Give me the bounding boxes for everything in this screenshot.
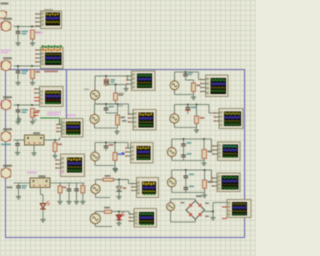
label C1 value <box>22 31 29 33</box>
capacitor C7 <box>76 183 78 189</box>
label below S1 magenta <box>36 32 43 34</box>
ground cell RA <box>193 95 195 98</box>
wire to B-left scope <box>128 104 130 114</box>
wire V9 top <box>171 170 173 177</box>
LED D1 <box>40 204 46 209</box>
label C11 <box>188 72 193 74</box>
op-amp U4 <box>1 131 11 141</box>
label X2 <box>39 175 46 177</box>
wire to C-left scope <box>127 143 129 149</box>
red wire to E-right pin2 <box>222 206 227 208</box>
wire X2 bottom <box>40 188 42 195</box>
resistor R19 <box>202 150 207 159</box>
resistor R3 <box>31 109 35 118</box>
capacitor C10 <box>105 143 107 146</box>
wire output stage 3 <box>14 104 41 106</box>
label C3 value <box>22 109 29 111</box>
ground below D3 <box>118 221 120 224</box>
graph display A-right <box>206 75 229 97</box>
wire to C-right scope <box>211 139 213 153</box>
label R14 blue <box>118 153 122 155</box>
ground below R1 <box>32 41 34 44</box>
wire R15 to D2 <box>114 179 129 181</box>
capacitor C2 <box>17 67 19 71</box>
wire X2 out <box>50 182 85 184</box>
label R3 value <box>36 110 41 112</box>
label R13 <box>121 117 126 119</box>
ground below C5 <box>18 194 20 197</box>
red pin stub stage 1 <box>1 23 2 28</box>
op-amp U3 <box>1 99 11 109</box>
wire V2 top <box>94 104 96 114</box>
resistor R12 <box>114 93 118 101</box>
label C16 <box>189 186 194 188</box>
top-left tiny label <box>1 3 9 5</box>
AC source V3 <box>91 152 100 161</box>
wire X1 bottom <box>33 145 35 151</box>
diode D2 <box>118 180 120 187</box>
ground below C1 <box>17 41 19 44</box>
resistor R13 <box>116 115 120 125</box>
label C5 <box>22 185 28 187</box>
ground below C7 <box>76 199 78 202</box>
wire to D-left scope <box>128 180 130 184</box>
graph display B-left <box>133 110 156 131</box>
ground cell RB <box>196 128 198 131</box>
graph display C-right <box>218 142 241 161</box>
ground top D <box>115 167 117 170</box>
graph display D-left <box>137 178 159 198</box>
capacitor C1 <box>17 27 19 31</box>
wire R16 to LED <box>112 211 129 213</box>
red text below S2 <box>44 71 58 73</box>
ground below X1 <box>33 151 35 154</box>
bridge rectifier D4-D7 <box>186 201 205 220</box>
ground arrow A <box>125 85 127 87</box>
wire to E-left scope <box>128 212 130 215</box>
label U3 <box>3 96 12 98</box>
label U5 <box>3 165 12 167</box>
label C9 <box>109 106 115 108</box>
ground below D2 <box>118 194 120 197</box>
ground cell C <box>114 166 116 169</box>
op-amp U1 <box>1 21 11 31</box>
label bridge <box>196 195 202 197</box>
label C2 value <box>22 70 29 72</box>
wire V6 top <box>174 72 176 80</box>
wire X1 to R9 <box>44 139 60 141</box>
wire V8 bottom <box>171 157 173 160</box>
red stub b <box>33 115 38 117</box>
capacitor C6 <box>68 183 70 189</box>
wire to B-right scope <box>208 105 210 114</box>
label C10 red <box>109 144 114 146</box>
label U1 <box>3 18 12 20</box>
green trace label above S2 <box>42 45 44 47</box>
label D corner c <box>205 216 209 218</box>
capacitor C9 <box>105 104 107 108</box>
label X1 <box>33 132 40 134</box>
red pin stub stage 3 <box>1 102 2 107</box>
capacitor C14 <box>183 149 185 155</box>
label R10 <box>63 187 67 189</box>
capacitor C13 <box>183 139 185 144</box>
ground below R9 <box>54 153 56 156</box>
wire mid A <box>105 85 107 87</box>
capacitor C15 <box>185 170 187 176</box>
red wire into S3 pin4 <box>34 100 40 102</box>
resistor R14 <box>113 153 117 161</box>
wire V4 top <box>95 180 97 184</box>
wire below D3 <box>118 220 120 222</box>
resistor R18 <box>195 116 199 124</box>
ground below R3 <box>32 119 34 122</box>
AC source V2 <box>90 114 99 123</box>
label R12 <box>119 94 124 96</box>
ground below C2 <box>17 80 19 83</box>
label R20 <box>208 181 213 183</box>
label D corner a <box>181 202 185 204</box>
capacitor C16 <box>185 181 187 187</box>
ground below C3 <box>17 119 19 122</box>
wire bridge out <box>205 211 213 213</box>
wire U4 output <box>14 139 25 141</box>
node stage 3 A <box>17 104 19 106</box>
label R18 <box>200 117 205 119</box>
node stage 1 B <box>31 26 33 28</box>
resistor R17 <box>192 83 196 92</box>
wire V10 top <box>170 199 172 202</box>
schematic grid background <box>0 0 256 256</box>
graph display S2 <box>41 48 64 69</box>
sheet border <box>6 70 245 238</box>
ground below R2 <box>32 80 34 83</box>
magenta text row b <box>59 171 64 173</box>
graph display B-right <box>219 109 243 129</box>
resistor R20 <box>203 180 207 188</box>
label R17 <box>197 85 201 87</box>
label R9 <box>58 144 63 146</box>
ground bridge <box>212 215 214 218</box>
component box X1 <box>25 135 45 145</box>
component box X2 <box>30 178 50 188</box>
wire mid B <box>106 112 118 114</box>
capacitor C3 <box>17 106 19 110</box>
resistor R10 <box>58 186 62 193</box>
wire to A-left scope <box>127 76 129 80</box>
graph display E-left <box>134 209 157 228</box>
label C14 <box>187 153 192 155</box>
wire V8 top <box>171 139 173 147</box>
wire V6 bottom <box>174 90 176 94</box>
wire V9 bottom <box>171 187 173 192</box>
wire V3 bottom <box>94 162 96 166</box>
wire V1 top <box>94 76 96 90</box>
node bridge out <box>212 211 214 213</box>
orange row S2 <box>42 49 44 51</box>
gray marks <box>32 119 37 121</box>
AC source V4 <box>91 184 100 193</box>
wire to S5 pins <box>59 138 61 141</box>
red wire into S3 pin3 <box>34 97 40 99</box>
ground cell B <box>116 129 118 132</box>
wire V7 top <box>173 105 175 114</box>
red wire to E-right pin4 <box>222 218 227 220</box>
label C8 <box>111 79 116 81</box>
resistor R15 horizontal <box>103 178 114 181</box>
capacitor C8 <box>105 76 107 79</box>
capacitor C4 <box>17 140 19 143</box>
pink mark stage3 <box>0 101 4 103</box>
op-amp U2 <box>1 60 11 70</box>
label D corner b <box>205 203 209 205</box>
node stage 3 B <box>31 104 33 106</box>
label D2 <box>123 187 127 189</box>
capacitor C11 <box>185 72 187 74</box>
node stage 2 A <box>17 65 19 67</box>
AC source V10 <box>167 203 175 211</box>
LED D3 <box>118 212 120 215</box>
graph display A-left <box>132 71 156 91</box>
AC source V5 <box>90 214 100 224</box>
wire V1 bottom <box>94 101 96 105</box>
gray text under A <box>118 93 124 95</box>
op-amp U1 second unit <box>0 11 7 19</box>
wire below D2 <box>118 192 120 195</box>
graph display S5 <box>61 154 85 177</box>
magenta text row a <box>27 172 37 174</box>
resistor R2 <box>31 70 35 79</box>
wire to A-right scope <box>198 72 200 80</box>
AC source V7 <box>170 114 179 123</box>
AC source V1 <box>90 90 99 99</box>
wire V2 bottom <box>94 125 96 129</box>
ground below C4 <box>17 150 19 153</box>
wire U5 output <box>14 182 31 184</box>
AC source V9 <box>167 178 176 187</box>
node stage 2 B <box>31 65 33 67</box>
label above S1 <box>44 9 53 11</box>
gray text under B <box>118 105 123 107</box>
capacitor C12 <box>187 105 189 108</box>
text left of C5 <box>7 187 13 189</box>
resistor R11 <box>81 186 85 194</box>
wire V5 bottom <box>94 225 96 227</box>
label R16 <box>104 207 110 209</box>
red pin stub stage 2 <box>1 63 2 68</box>
node mid A <box>115 84 117 86</box>
resistor R16 horizontal <box>104 210 111 213</box>
ground cell RD <box>204 193 206 196</box>
label V1 gray <box>84 89 89 91</box>
graph display E-right <box>227 200 251 218</box>
graph display S4 <box>62 119 84 138</box>
capacitor C5 <box>18 183 20 186</box>
red stub a <box>33 112 39 114</box>
wire vertical bus at x66.5 <box>66 70 68 118</box>
AC source V8 <box>167 148 176 157</box>
ground cell RC <box>203 161 205 164</box>
ground below R11 <box>82 199 84 202</box>
graph display C-left <box>131 143 154 164</box>
pink text under S4 <box>47 112 61 114</box>
ground below C6 <box>68 199 70 202</box>
node stage 1 A <box>17 26 19 28</box>
resistor R1 <box>31 30 35 39</box>
label C13 <box>187 142 192 144</box>
wire V5 top <box>94 212 96 213</box>
pink text above U2 <box>1 50 12 52</box>
wire output stage 2 <box>14 65 41 67</box>
wire V3 top <box>94 143 96 152</box>
label C15 <box>189 174 194 176</box>
label U4 <box>3 128 12 130</box>
wire V10 bottom <box>170 211 172 222</box>
label C12 <box>191 107 197 109</box>
label U2 <box>3 57 12 59</box>
label U4 value <box>1 144 11 146</box>
wire V7 bottom <box>173 124 175 128</box>
wire to D-right scope <box>211 170 213 181</box>
graph display D-right <box>217 173 240 192</box>
op-amp U5 <box>1 168 11 178</box>
label R1 value <box>36 32 41 34</box>
graph display S1 <box>41 11 62 29</box>
label R15 <box>105 175 111 177</box>
ground below LED <box>42 217 44 220</box>
wire mid RA <box>186 79 194 81</box>
resistor R9 <box>53 143 57 152</box>
label R2 value <box>36 71 41 73</box>
label R19 <box>208 151 213 153</box>
wire junction down <box>115 85 117 94</box>
ground above right of U4 <box>18 117 20 120</box>
blue marker <box>122 152 125 155</box>
green wire L <box>40 117 60 119</box>
graph display S3 <box>40 87 64 107</box>
AC source V6 <box>170 81 179 90</box>
wire below LED <box>42 209 44 217</box>
small part label <box>122 120 127 122</box>
wire output stage 1 <box>14 26 41 28</box>
pink text right <box>67 114 76 116</box>
ground below R10 <box>59 199 61 202</box>
wire V4 bottom <box>95 195 97 198</box>
